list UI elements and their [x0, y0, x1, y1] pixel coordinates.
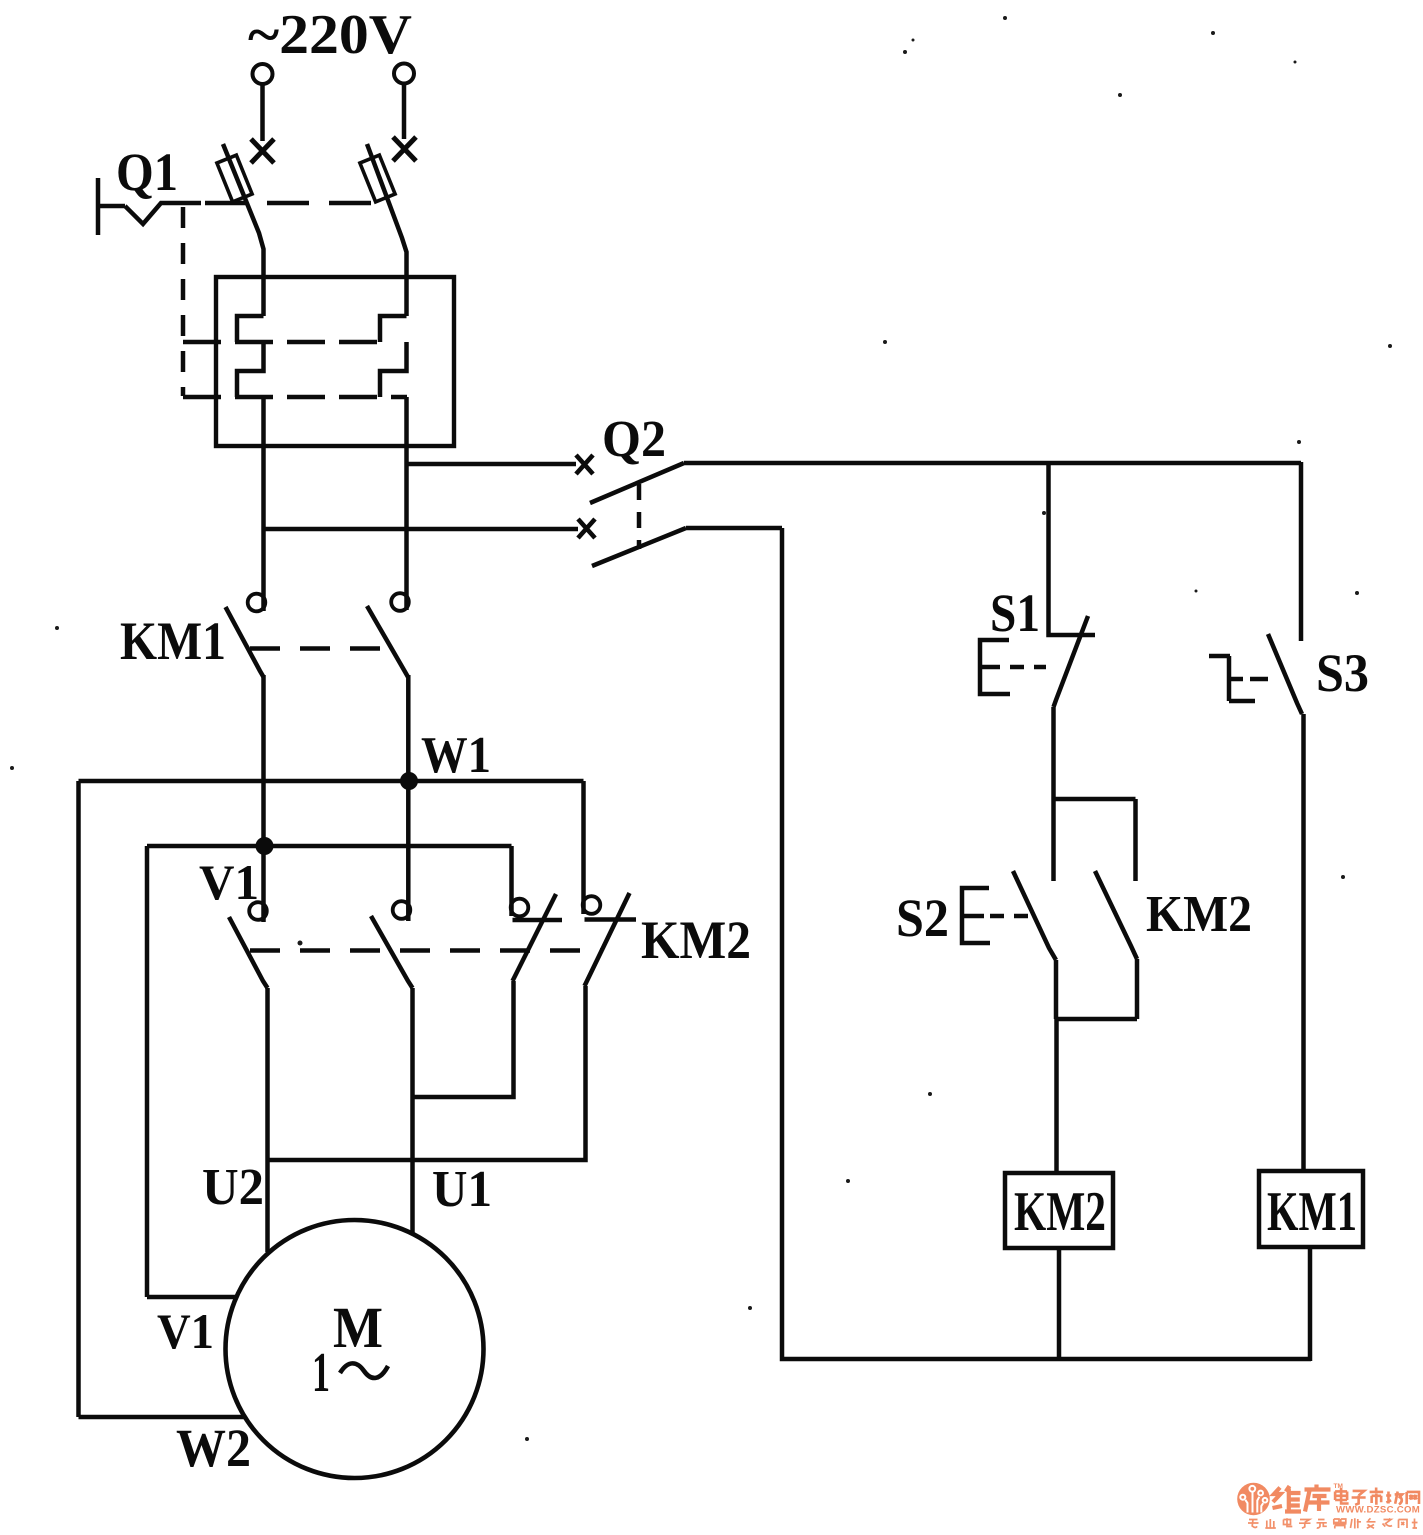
svg-text:W1: W1	[421, 727, 491, 784]
svg-text:U2: U2	[202, 1159, 264, 1216]
svg-text:V1: V1	[199, 854, 259, 910]
svg-text:KM2: KM2	[1146, 886, 1252, 943]
svg-text:U1: U1	[432, 1161, 492, 1218]
svg-text:WWW.DZSC.COM: WWW.DZSC.COM	[1336, 1505, 1420, 1516]
svg-text:~220V: ~220V	[248, 4, 412, 66]
svg-text:W2: W2	[176, 1418, 251, 1478]
svg-text:KM2: KM2	[641, 910, 751, 970]
svg-text:KM2: KM2	[1014, 1181, 1106, 1243]
svg-text:Q2: Q2	[602, 411, 666, 468]
svg-text:Q1: Q1	[116, 142, 178, 202]
svg-text:M: M	[333, 1295, 383, 1360]
svg-text:TM: TM	[1334, 1483, 1343, 1490]
svg-text:S1: S1	[990, 583, 1040, 643]
svg-text:KM1: KM1	[120, 611, 226, 671]
svg-text:S2: S2	[896, 888, 949, 948]
svg-text:S3: S3	[1316, 643, 1369, 703]
svg-text:1: 1	[312, 1342, 330, 1404]
svg-text:KM1: KM1	[1267, 1181, 1357, 1243]
svg-text:V1: V1	[157, 1303, 214, 1359]
